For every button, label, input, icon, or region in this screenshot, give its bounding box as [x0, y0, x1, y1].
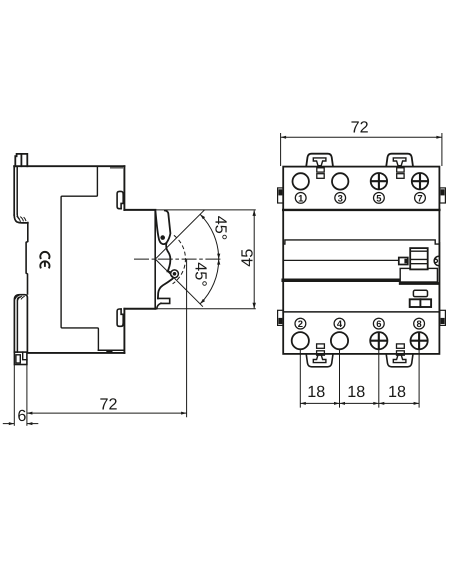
svg-text:6: 6 [376, 318, 381, 329]
svg-text:18: 18 [388, 383, 406, 401]
svg-text:72: 72 [351, 119, 369, 137]
svg-text:45: 45 [238, 249, 256, 267]
svg-text:3: 3 [338, 192, 343, 203]
svg-text:18: 18 [307, 383, 325, 401]
svg-text:4: 4 [337, 318, 343, 329]
svg-text:18: 18 [347, 383, 365, 401]
svg-text:45°: 45° [192, 262, 210, 286]
svg-text:5: 5 [376, 192, 381, 203]
svg-text:1: 1 [298, 192, 303, 203]
svg-text:7: 7 [417, 192, 422, 203]
svg-text:45°: 45° [212, 216, 230, 240]
svg-text:8: 8 [416, 318, 421, 329]
svg-text:6: 6 [17, 407, 26, 425]
svg-text:72: 72 [99, 396, 117, 414]
svg-text:2: 2 [298, 318, 303, 329]
